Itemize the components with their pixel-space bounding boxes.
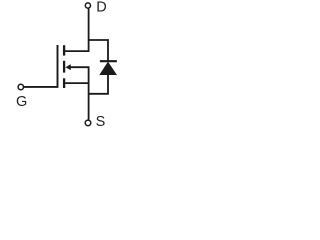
wire drain lead + drain vertical [65,9,89,52]
transistor Q1 body lead wire + source vertical [70,67,89,120]
terminal circle D [85,3,90,8]
diode D1 anode triangle [100,62,116,74]
svg-text:G: G [16,94,27,110]
wire source lead [65,82,89,84]
transistor Q1 body arrow [65,64,70,70]
diode D1 cathode bar [100,60,117,62]
svg-text:S: S [96,114,106,130]
wire top branch to diode [89,40,108,62]
wire diode bottom branch [89,74,108,94]
transistor Q1 channel bar bottom [63,78,65,88]
transistor Q1 channel bar middle [63,61,65,73]
wire gate + transistor Q1 gate line [24,45,58,87]
terminal circle G [18,84,23,89]
transistor Q1 channel bar top [63,45,65,55]
terminal circle S [85,120,91,126]
svg-text:D: D [96,0,106,16]
